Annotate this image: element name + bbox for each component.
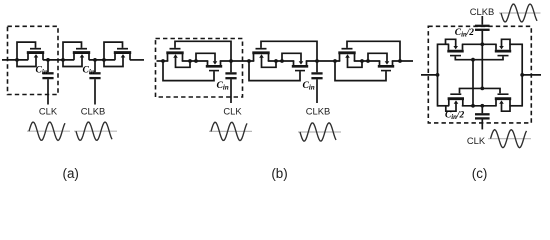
- left output rail (c): [437, 44, 439, 107]
- cross wire: bottom gates to CLKB rail: [481, 44, 483, 88]
- capacitor C_in (C1): [42, 60, 53, 105]
- transistor S2b (bottom mirrored NMOS, gate to input): [249, 53, 308, 80]
- junction dots S2b: [280, 59, 284, 63]
- svg-text:(c): (c): [472, 166, 488, 181]
- transistor S3a (top NMOS, gate to output): [338, 41, 400, 67]
- transistor M8 (bottom-right): [495, 94, 511, 111]
- capacitor C_in/2 (bottom, CLK): [475, 106, 490, 130]
- transistor M6 (top-right): [495, 39, 511, 55]
- junction dots S3b: [366, 59, 370, 63]
- junction dots S3a: [333, 59, 337, 63]
- transistor M7 (bottom-left): [446, 94, 464, 111]
- capacitor C_in (C2): [89, 60, 100, 105]
- transistor M1 (diode-connected NMOS): [17, 42, 44, 66]
- capacitor C_in/2 (top, CLKB): [475, 16, 490, 44]
- CLK sine wave (a): [27, 122, 70, 140]
- right output rail (c): [521, 44, 523, 107]
- dashed box around first stage of (a): [8, 26, 59, 94]
- CLK sine wave (c): [488, 130, 531, 148]
- CLKB sine wave (a): [74, 122, 117, 140]
- top rail segments (c): [438, 43, 523, 45]
- bottom gate interconnect wire (c): [459, 88, 501, 93]
- main signal wire (b): [157, 60, 414, 62]
- dashed box (c): [428, 26, 531, 123]
- svg-text:CLKB: CLKB: [81, 105, 106, 116]
- main signal wire (a): [2, 59, 144, 61]
- svg-text:CLK: CLK: [467, 135, 486, 146]
- capacitor C_in (stage S2): [311, 61, 322, 103]
- junction dots S1b: [194, 59, 198, 63]
- bottom rail segments (c): [438, 105, 523, 107]
- junction dot cap C1: [46, 58, 50, 62]
- left output stub (c): [421, 74, 438, 76]
- CLK sine wave (b): [209, 122, 252, 140]
- right output stub (c): [522, 74, 541, 76]
- transistor S3b (bottom mirrored NMOS, gate to input): [335, 53, 394, 80]
- CLKB sine wave (b): [298, 123, 341, 141]
- node dot at input of M3: [102, 58, 106, 62]
- transistor S1a (top NMOS, gate to output): [166, 41, 231, 67]
- transistor M3 (diode-connected NMOS): [104, 42, 131, 66]
- junction dot cap C2: [93, 58, 97, 62]
- transistor S1b (bottom mirrored NMOS, gate to input): [163, 53, 222, 80]
- svg-text:CLKB: CLKB: [306, 105, 331, 116]
- cross wire: top gates to CLK rail: [472, 60, 474, 106]
- junction dots S1a: [161, 59, 165, 63]
- transistor M2 (diode-connected NMOS): [63, 42, 90, 66]
- dashed box around first stage of (b): [156, 39, 243, 98]
- transistor M5 (top-left): [446, 39, 464, 55]
- node dot at input of M1: [15, 58, 19, 62]
- svg-text:CLK: CLK: [39, 105, 58, 116]
- transistor S2a (top NMOS, gate to output): [252, 41, 317, 67]
- svg-text:(b): (b): [271, 166, 287, 181]
- node dot at input of M2: [61, 58, 65, 62]
- svg-text:CLK: CLK: [223, 105, 242, 116]
- svg-text:(a): (a): [63, 166, 79, 181]
- svg-text:CLKB: CLKB: [470, 6, 495, 17]
- capacitor C_in (stage S1): [225, 61, 236, 103]
- junction dots S2a: [247, 59, 251, 63]
- CLKB sine wave (c): [499, 4, 541, 22]
- top gate interconnect wire (c): [455, 56, 504, 59]
